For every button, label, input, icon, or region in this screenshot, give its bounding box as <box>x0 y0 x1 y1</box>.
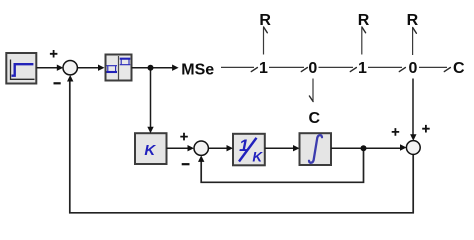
svg-text:R: R <box>259 12 271 29</box>
svg-text:R: R <box>358 12 370 29</box>
svg-text:1: 1 <box>259 60 268 77</box>
svg-text:K: K <box>252 150 263 165</box>
svg-text:C: C <box>453 60 465 77</box>
svg-text:C: C <box>309 110 321 127</box>
svg-text:MSe: MSe <box>181 61 214 78</box>
svg-text:0: 0 <box>409 60 418 77</box>
svg-text:1: 1 <box>358 60 367 77</box>
svg-text:R: R <box>407 12 419 29</box>
svg-text:K: K <box>144 142 156 159</box>
svg-text:0: 0 <box>308 60 317 77</box>
